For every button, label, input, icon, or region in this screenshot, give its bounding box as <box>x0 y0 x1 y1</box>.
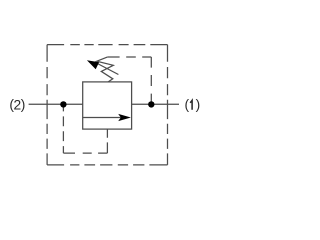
svg-text:): ) <box>196 97 201 112</box>
svg-text:(: ( <box>185 97 190 112</box>
svg-text:): ) <box>21 97 26 112</box>
